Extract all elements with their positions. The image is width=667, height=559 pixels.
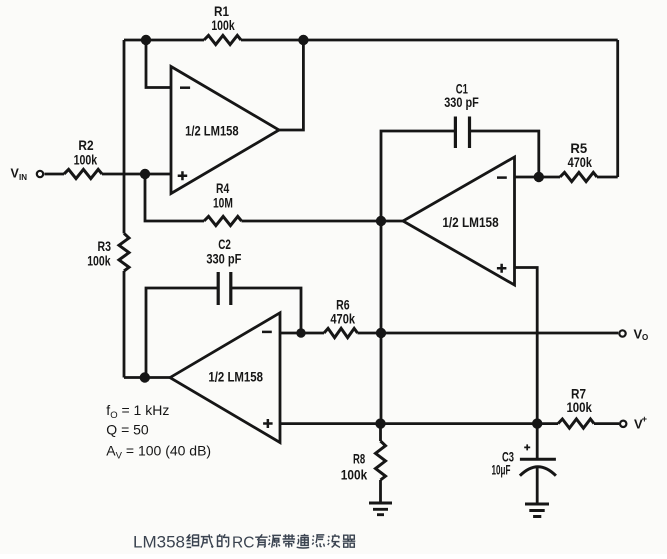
node dot Vin plus input [140,169,150,179]
capacitor C1 [455,117,469,149]
svg-text:R8: R8 [353,450,365,466]
svg-text:+: + [642,414,647,424]
node dot Vo rail [376,328,386,338]
svg-text:330 pF: 330 pF [206,251,241,267]
svg-text:AV = 100 (40 dB): AV = 100 (40 dB) [106,443,211,462]
caption glyph cheng [201,534,213,547]
svg-text:LM358: LM358 [133,533,185,552]
wire C1 left branch [381,131,455,221]
op-amp U3 [170,313,280,443]
svg-text:Q = 50: Q = 50 [106,422,149,438]
svg-text:1/2 LM158: 1/2 LM158 [442,214,498,230]
wire left vertical R3 branch [123,40,126,378]
caption glyph dai [283,534,296,547]
caption glyph tong [297,534,310,548]
svg-text:470k: 470k [330,310,355,326]
node dot U3 output [140,372,150,382]
wire U1 output up to top rail [279,40,303,130]
ground G2 [525,504,549,517]
svg-text:RC: RC [232,535,254,552]
op-amp U2 [403,157,515,285]
resistor R2 [64,169,102,178]
node dot R6 left [296,328,305,337]
ground G1 [369,503,392,515]
wire U3 plus input bottom rail [280,422,558,425]
wire U2 output down to bottom rail [380,221,383,424]
caption glyph bo [328,534,340,547]
caption glyph zu [187,534,200,547]
resistor R3 [119,233,129,271]
svg-text:100k: 100k [341,466,368,482]
caption glyph you [255,534,267,547]
C3 plus polarity mark [524,444,530,450]
wire C2 left branch [146,288,218,378]
resistor R6 [324,328,357,337]
svg-text:100k: 100k [211,17,234,33]
wire R2 to U1 plus input [102,173,171,176]
U2 minus pin symbol [497,176,507,179]
op-amp U1 [171,67,279,194]
wire Vin to R2 [45,173,65,176]
node dot C3 top [532,418,542,428]
node dot U1 output rail [298,35,308,45]
svg-text:100k: 100k [74,152,98,168]
capacitor C3 curved plate [520,467,556,476]
svg-text:1/2 LM158: 1/2 LM158 [185,123,239,139]
wire C3 top [536,424,539,459]
wire Vo rail [358,332,619,335]
terminal VO [619,330,625,336]
caption [133,533,355,552]
svg-text:470k: 470k [568,154,592,170]
svg-text:330 pF: 330 pF [444,94,479,110]
wire U3 minus input to R6 [280,332,324,335]
svg-text:IN: IN [19,173,27,182]
wire C3 to ground [536,467,539,504]
caption glyph lv [312,535,324,547]
wire R4 to U2 output apex [242,220,404,223]
svg-text:fO = 1 kHz: fO = 1 kHz [106,402,169,421]
node dot U1 minus rail [141,35,151,45]
svg-text:1/2 LM158: 1/2 LM158 [208,368,263,384]
wire right edge down to R5 [597,40,618,177]
caption glyph yuan [269,535,282,547]
node dot R8 top [375,418,385,428]
wire U2 minus input to R5 [515,176,561,179]
wire C2 right branch [231,288,301,333]
svg-text:10μF: 10μF [492,462,511,478]
wire U2 plus input down [515,268,538,424]
svg-text:100k: 100k [87,253,111,269]
U2 plus pin symbol [497,264,507,273]
U1 plus pin symbol [178,171,188,180]
caption glyph de [218,534,229,547]
terminal V+ [620,421,626,427]
svg-text:O: O [642,333,648,342]
svg-text:10M: 10M [213,194,233,210]
node dot U2 output [376,216,386,226]
caption glyph qi [343,535,356,547]
resistor R8 [376,441,386,480]
resistor R5 [560,172,597,181]
wire R7 to V+ terminal [594,422,619,425]
U3 plus pin symbol [263,419,273,428]
resistor R7 [558,419,594,428]
U1 minus pin symbol [180,86,190,89]
wire node A down to R4 [145,174,204,221]
wire U1 inverting input [146,40,171,88]
svg-text:100k: 100k [566,399,592,415]
resistor R1 [204,35,241,44]
capacitor C3 top plate [520,458,556,461]
capacitor C2 [218,272,231,305]
svg-text:R3: R3 [98,238,112,254]
wire C1 right branch [470,131,539,177]
terminal VIN [37,171,43,177]
wire top rail [124,39,618,42]
U3 minus pin symbol [262,331,272,334]
resistor R4 [204,216,242,225]
node dot U2 minus R5 [534,172,544,182]
wire R8 branch [379,424,382,503]
wire U3 output to apex [124,376,170,379]
